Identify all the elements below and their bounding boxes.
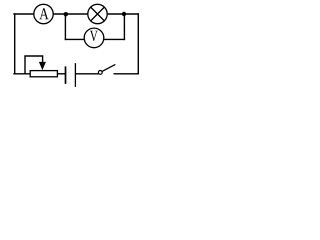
wire battery to switch pivot (76, 73, 98, 75)
rheostat slider branch wire (25, 56, 43, 74)
wire bottom-right to switch contact (114, 73, 138, 75)
wire lamp to top-right corner (107, 13, 138, 15)
junction dot node B (64, 12, 68, 16)
wire voltmeter right (104, 38, 125, 40)
wire rheostat to battery (58, 73, 66, 75)
wire bottom-left to rheostat left terminal (14, 73, 30, 75)
wire right vertical (137, 14, 139, 74)
voltmeter V1 (84, 28, 104, 48)
switch S1 pivot (98, 71, 102, 75)
wire voltmeter branch left vertical (node B down) (64, 14, 66, 39)
battery cell: negative plate (short) (65, 66, 67, 84)
wire voltmeter branch right vertical up to node C (123, 14, 125, 39)
junction dot node C (122, 12, 126, 16)
lamp L1 (88, 4, 107, 23)
wire top-left horizontal (14, 13, 34, 15)
battery cell: positive plate (long) (74, 63, 76, 87)
wire ammeter to lamp (53, 13, 88, 15)
switch S1 blade (102, 65, 115, 72)
ammeter A1 (34, 4, 53, 23)
rheostat R1 body (30, 71, 57, 77)
wire left vertical (14, 14, 16, 74)
wire to voltmeter left (65, 38, 84, 40)
rheostat slider arrow (39, 62, 46, 70)
